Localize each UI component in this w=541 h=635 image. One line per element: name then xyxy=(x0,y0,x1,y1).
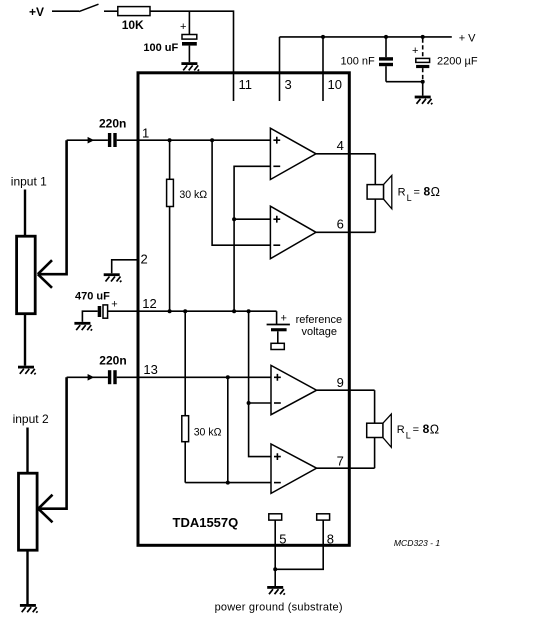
wire 10K to pin 11 corner xyxy=(150,11,234,101)
svg-text:30 kΩ: 30 kΩ xyxy=(194,427,222,439)
svg-text:100 nF: 100 nF xyxy=(341,56,376,68)
wire amp2 out pin 6 xyxy=(316,231,375,233)
svg-text:+ V: + V xyxy=(459,33,476,45)
capacitor 2200uF xyxy=(412,35,478,96)
svg-text:MCD323 - 1: MCD323 - 1 xyxy=(394,538,441,548)
capacitor 220n input 1 xyxy=(67,117,127,147)
svg-text:470 uF: 470 uF xyxy=(75,291,110,303)
pin 8 box xyxy=(317,514,330,520)
svg-text:5: 5 xyxy=(279,531,286,546)
wire pot2 to ground xyxy=(26,550,28,604)
speaker LS1 xyxy=(367,175,392,208)
resistor 10K xyxy=(118,7,150,16)
wire amp4 out pin 7 xyxy=(317,467,375,469)
svg-text:+: + xyxy=(412,45,418,57)
svg-text:=: = xyxy=(413,424,419,436)
ground for 100uF xyxy=(181,62,199,71)
svg-text:R: R xyxy=(397,424,405,436)
node dots on pin12 wire xyxy=(168,309,172,313)
wire ref to amp3 minus / amp4 plus xyxy=(249,311,271,456)
30k resistor R1 xyxy=(167,140,208,311)
wire pin 2 to ground xyxy=(112,260,138,274)
svg-text:12: 12 xyxy=(142,296,156,311)
svg-text:L: L xyxy=(407,193,412,203)
svg-text:13: 13 xyxy=(143,362,157,377)
wire input1 vertical (thick) xyxy=(39,140,67,274)
wire input2 vertical (thick) xyxy=(40,377,67,508)
node dot feedback/amp2 plus xyxy=(232,217,236,221)
wire pot1 to ground xyxy=(24,314,26,366)
svg-text:reference: reference xyxy=(296,314,342,326)
svg-text:11: 11 xyxy=(239,77,253,92)
capacitor C 100uF xyxy=(143,21,196,62)
pin 5 box xyxy=(269,514,282,520)
wire pin 1 xyxy=(117,139,271,141)
svg-text:220n: 220n xyxy=(99,117,126,131)
svg-text:8: 8 xyxy=(424,185,431,199)
wire input2 to pot xyxy=(26,428,28,474)
potentiometer P1 wiper arrow xyxy=(38,260,52,288)
wire +V to switch xyxy=(52,10,79,12)
svg-text:=: = xyxy=(414,187,420,199)
svg-text:1: 1 xyxy=(142,126,149,141)
svg-text:+: + xyxy=(111,299,117,311)
ground power (substrate) xyxy=(267,586,285,595)
label RL = 8 ohm (1) xyxy=(398,185,440,204)
op-amp U1a xyxy=(270,128,316,179)
svg-text:2: 2 xyxy=(141,252,148,267)
switch S1 blade xyxy=(79,4,99,11)
wire branch to 100uF xyxy=(188,11,190,34)
potentiometer P2 body xyxy=(19,473,38,550)
capacitor reference voltage xyxy=(267,311,342,349)
pin 5 wire xyxy=(274,520,276,569)
wire pin1 to amp2 minus xyxy=(212,140,270,245)
label RL = 8 ohm (2) xyxy=(397,422,439,441)
svg-text:10K: 10K xyxy=(122,18,144,32)
node dot pin1/feedback xyxy=(210,138,214,142)
svg-text:10: 10 xyxy=(328,77,342,92)
svg-text:+: + xyxy=(281,313,287,325)
wire speaker1 vertical xyxy=(374,154,376,233)
svg-text:220n: 220n xyxy=(99,354,126,368)
svg-text:+V: +V xyxy=(29,5,44,19)
wire amp3 out pin 9 xyxy=(317,389,375,391)
30k resistor R2 xyxy=(182,311,222,482)
svg-text:power ground (substrate): power ground (substrate) xyxy=(215,602,343,614)
svg-text:input 2: input 2 xyxy=(13,412,49,426)
svg-text:6: 6 xyxy=(337,217,344,232)
svg-text:3: 3 xyxy=(285,77,292,92)
svg-text:2200 µF: 2200 µF xyxy=(437,56,478,68)
op-amp U1b xyxy=(270,206,316,259)
node dot amp3 minus xyxy=(247,401,251,405)
wire to power ground xyxy=(274,569,276,586)
IC box TDA1557Q xyxy=(138,73,349,546)
ground for 2200uF xyxy=(415,96,433,105)
pin 10 stub xyxy=(322,37,324,101)
wire pin 13 xyxy=(117,376,271,378)
wire amp3 minus stub xyxy=(249,402,271,404)
speaker LS2 xyxy=(367,414,392,447)
wire to amp2 plus xyxy=(234,218,270,220)
wire +V bus xyxy=(280,36,452,38)
svg-text:+: + xyxy=(180,21,186,33)
svg-text:8: 8 xyxy=(327,531,334,546)
wire input1 to pot xyxy=(24,190,26,237)
wire pin13 to amp4 minus xyxy=(227,377,229,482)
svg-text:4: 4 xyxy=(337,138,344,153)
op-amp U1d xyxy=(271,444,317,493)
wire switch to resistor xyxy=(104,10,118,12)
svg-text:Ω: Ω xyxy=(431,185,440,199)
wire speaker2 vertical xyxy=(374,390,376,468)
capacitor 470uF xyxy=(75,291,118,322)
svg-text:Ω: Ω xyxy=(430,423,439,437)
node dot pin13 xyxy=(226,375,230,379)
svg-text:R: R xyxy=(398,187,406,199)
ground 470uF xyxy=(74,322,92,331)
svg-text:100 uF: 100 uF xyxy=(143,42,178,54)
pin 8 wire xyxy=(275,520,323,569)
svg-text:7: 7 xyxy=(337,454,344,469)
node dot power ground xyxy=(273,567,277,571)
op-amp U1c xyxy=(271,365,317,414)
capacitor 100nF xyxy=(341,35,423,82)
wire amp4 minus horizontal xyxy=(185,482,271,484)
ground pot2 xyxy=(20,604,38,613)
ground pin2 xyxy=(104,273,122,282)
svg-text:L: L xyxy=(406,431,411,441)
wire amp1 out pin 4 xyxy=(316,153,375,155)
svg-text:TDA1557Q: TDA1557Q xyxy=(173,515,239,530)
wire pin 12 xyxy=(108,310,277,312)
svg-text:9: 9 xyxy=(337,375,344,390)
svg-text:voltage: voltage xyxy=(302,326,337,338)
svg-text:8: 8 xyxy=(423,422,430,436)
svg-text:30 kΩ: 30 kΩ xyxy=(179,189,207,201)
node dot pin1/30k xyxy=(168,138,172,142)
pin 3 stub xyxy=(279,37,281,101)
capacitor 220n input 2 xyxy=(67,354,127,385)
ground pot1 xyxy=(18,366,36,375)
wire amp1 minus feedback xyxy=(234,166,270,311)
node dot amp4 minus join xyxy=(226,481,230,485)
potentiometer P1 body xyxy=(17,236,36,314)
svg-text:input 1: input 1 xyxy=(11,174,47,188)
potentiometer P2 wiper arrow xyxy=(38,495,52,523)
